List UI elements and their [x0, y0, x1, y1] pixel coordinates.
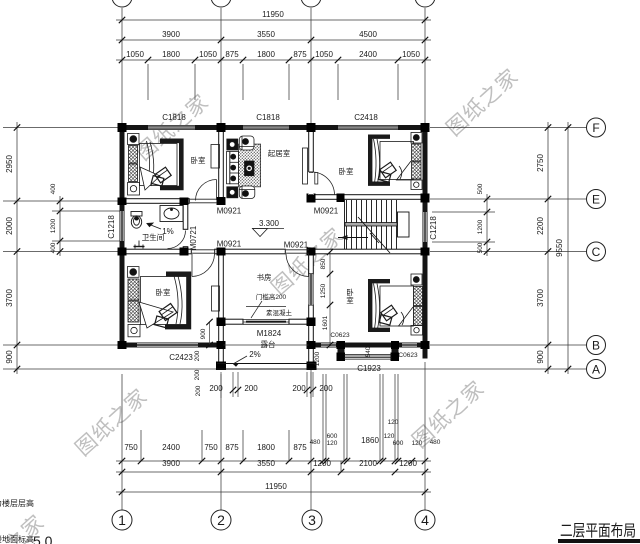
window C1818 b [243, 125, 289, 130]
bottom extension col1 [121, 374, 123, 510]
threshold leader line [251, 301, 262, 318]
svg-text:C0623: C0623 [330, 332, 350, 339]
bed2 mattress [380, 142, 414, 180]
svg-text:1800: 1800 [257, 50, 275, 59]
svg-text:2950: 2950 [5, 155, 14, 173]
svg-text:3550: 3550 [257, 459, 275, 468]
right C extension [430, 251, 586, 253]
right window jamb extensions [432, 211, 495, 213]
svg-text:120: 120 [384, 433, 395, 440]
svg-text:11950: 11950 [265, 482, 287, 491]
svg-text:200: 200 [292, 384, 306, 393]
wall bay left [338, 348, 345, 361]
svg-text:875: 875 [293, 443, 307, 452]
left main dim line [16, 122, 18, 374]
svg-text:3700: 3700 [536, 289, 545, 307]
door M0921 study threshold [286, 249, 309, 251]
bed3 fold [139, 302, 173, 328]
svg-text:卧室: 卧室 [339, 166, 354, 176]
bed3 pillows [128, 279, 139, 300]
tv bench [303, 148, 308, 184]
svg-text:500: 500 [477, 242, 484, 253]
svg-text:1%: 1% [162, 227, 174, 236]
svg-text:3900: 3900 [162, 459, 180, 468]
FURNITURE bedroom4 (bottom-right) [370, 274, 422, 335]
svg-text:875: 875 [225, 50, 239, 59]
svg-text:2000: 2000 [5, 217, 14, 235]
svg-text:600: 600 [327, 433, 338, 440]
window C0623 in X3 lower wall [309, 274, 314, 305]
svg-text:M0921: M0921 [217, 240, 242, 249]
small 200 dims below B [221, 372, 313, 398]
armchair top [239, 136, 254, 150]
svg-text:C1218: C1218 [107, 215, 116, 239]
top dim row window [116, 59, 431, 61]
left secondary dim line [59, 196, 61, 256]
svg-text:200: 200 [195, 385, 202, 396]
bed4 fold [399, 307, 414, 326]
armchair bottom [239, 186, 255, 199]
level mark 3.300 [252, 229, 284, 237]
bed3 foot bracket [165, 274, 189, 327]
svg-text:C1818: C1818 [162, 113, 186, 122]
WINDOWS [120, 125, 428, 359]
bed1 pillows [129, 146, 138, 164]
bottom dim ticks [119, 458, 428, 495]
svg-text:200: 200 [319, 384, 333, 393]
stair treads [346, 200, 348, 249]
svg-text:875: 875 [225, 443, 239, 452]
svg-text:3700: 3700 [5, 289, 14, 307]
bed1 mattress [140, 144, 178, 186]
right circle A [587, 360, 606, 379]
svg-text:600: 600 [393, 440, 404, 447]
left window jamb extensions [52, 210, 120, 212]
svg-text:400: 400 [50, 242, 57, 253]
svg-text:为楼层层高: 为楼层层高 [0, 498, 34, 508]
top dim row total [116, 19, 431, 21]
bottom extension col2 [220, 374, 222, 510]
bottom dim row axis [116, 471, 431, 473]
wall bay right [392, 348, 399, 361]
coffee table [245, 161, 255, 176]
slope 2% leader [233, 356, 247, 367]
svg-text:2100: 2100 [359, 459, 377, 468]
svg-text:1860: 1860 [361, 436, 379, 445]
svg-text:3550: 3550 [257, 30, 275, 39]
wall X3 lower [309, 249, 314, 274]
bed3 nightstand top [127, 267, 139, 278]
window C1218 right [423, 212, 428, 242]
top circle 3 [301, 0, 321, 7]
svg-text:900: 900 [200, 328, 207, 339]
bed4 clothes [381, 305, 397, 321]
door M0921 bedroom2 leaf [315, 173, 318, 185]
right total dim line [567, 122, 569, 374]
svg-text:3.300: 3.300 [259, 219, 280, 228]
window C1923 bay [344, 355, 392, 360]
svg-text:室: 室 [346, 295, 354, 305]
window C1218 left [120, 211, 125, 241]
svg-text:1050: 1050 [315, 50, 333, 59]
wall bottom B right part [309, 343, 428, 348]
door M0921 bedroom2 gap [309, 172, 314, 195]
right dim ticks [484, 124, 571, 372]
bottom circle 3 [302, 510, 322, 530]
bed2 nightstand bottom [411, 180, 422, 190]
bed1 fold [140, 167, 160, 190]
bed3 clothes [159, 303, 177, 320]
interior dim 900 study [209, 322, 211, 345]
bottom dim row small [116, 460, 431, 462]
sofa back [227, 152, 230, 184]
svg-text:3: 3 [308, 512, 316, 528]
bed1 clothes [155, 167, 171, 183]
wall E stairs top [309, 195, 428, 200]
svg-text:480: 480 [430, 439, 441, 446]
wall right stub below B [423, 348, 428, 359]
wall X2 upper (bedroom1/living) [219, 130, 224, 198]
A line full extension [3, 368, 586, 370]
svg-text:1250: 1250 [320, 283, 327, 298]
svg-text:B: B [592, 339, 600, 353]
bed3 nightstand bottom [128, 324, 140, 336]
grid extension line col4 top [424, 8, 426, 125]
svg-text:C2423: C2423 [169, 353, 193, 362]
bottom circle 4 [415, 510, 435, 530]
svg-text:1200: 1200 [50, 218, 57, 233]
svg-text:2750: 2750 [536, 154, 545, 172]
window C2423 [137, 343, 198, 348]
svg-text:卫生间: 卫生间 [142, 232, 165, 242]
svg-text:120: 120 [412, 440, 423, 447]
svg-text:M0921: M0921 [284, 241, 309, 250]
right circle C [587, 242, 606, 261]
svg-text:E: E [592, 193, 600, 207]
left C extension [3, 251, 120, 253]
floor drain [138, 241, 140, 247]
DOORS [168, 172, 335, 324]
svg-text:200: 200 [244, 384, 258, 393]
dim ticks top rows [119, 17, 428, 63]
FURNITURE bedroom2 (top-right) [370, 133, 422, 190]
svg-text:C2418: C2418 [354, 113, 378, 122]
WALLS [120, 125, 428, 361]
bedroom3 desk [212, 286, 220, 311]
FURNITURE bedroom3 (bottom-left) [127, 267, 219, 337]
bed4 mattress [380, 286, 414, 326]
washbasin [160, 206, 183, 222]
svg-text:875: 875 [293, 50, 307, 59]
door M1824 dark leaf bar [246, 321, 286, 323]
stair arrow [338, 237, 368, 239]
svg-text:C1818: C1818 [256, 113, 280, 122]
svg-text:1800: 1800 [162, 50, 180, 59]
bed1 quilt curves [146, 141, 150, 187]
stair landing bar [345, 223, 397, 227]
svg-text:3900: 3900 [162, 30, 180, 39]
right circle F [587, 118, 606, 137]
bed2 pillows [412, 144, 422, 161]
top circle 1 [112, 0, 132, 7]
door M0921 bedroom1 leaf+arc [216, 180, 218, 201]
window C0623 left [321, 343, 336, 348]
door M0921 bedroom2 arc [312, 172, 335, 195]
right circle B [587, 336, 606, 355]
svg-text:卧室: 卧室 [156, 287, 171, 297]
grid extension line col2 top [220, 8, 222, 125]
svg-text:1200: 1200 [477, 219, 484, 234]
end table bottom (dark) [227, 187, 238, 198]
svg-text:F: F [592, 121, 599, 135]
top circle 2 [211, 0, 231, 7]
concrete leader line [246, 306, 286, 308]
svg-text:1050: 1050 [402, 50, 420, 59]
wall top F [120, 125, 428, 130]
bed1 foot bracket [160, 141, 181, 188]
svg-text:750: 750 [204, 443, 218, 452]
wall E bedroom1 bottom [120, 199, 190, 204]
right circle E [587, 190, 606, 209]
svg-text:素混凝土: 素混凝土 [266, 308, 293, 317]
right B extension [430, 344, 586, 346]
svg-text:120: 120 [388, 419, 399, 426]
door M0921 bedroom3 leaf+arc [191, 254, 193, 277]
svg-text:2%: 2% [249, 350, 261, 359]
slope 1% leader [147, 224, 161, 230]
bedroom1 desk [211, 145, 220, 169]
svg-text:M0721: M0721 [189, 225, 198, 250]
left B extension [3, 344, 120, 346]
wall X3 upper (living/bedroom2) [309, 130, 314, 172]
svg-text:1: 1 [118, 512, 126, 528]
stair side line [344, 200, 346, 249]
svg-text:1200: 1200 [399, 459, 417, 468]
stair well rail [398, 212, 410, 237]
bed2 nightstand top [411, 133, 422, 144]
window C0623 right [402, 343, 417, 348]
door M0921 study leaf+arc [308, 254, 310, 277]
bed2 foot bracket [370, 137, 390, 184]
bathroom fixtures [131, 206, 183, 249]
window C2418 [338, 125, 398, 130]
wall study south [219, 319, 243, 324]
svg-text:2200: 2200 [536, 217, 545, 235]
svg-text:门槛高200: 门槛高200 [256, 292, 287, 301]
sofa seats [230, 152, 239, 184]
wall left [120, 125, 125, 348]
svg-text:二层平面布局: 二层平面布局 [560, 522, 636, 540]
bottom circle 1 [112, 510, 132, 530]
svg-text:200: 200 [194, 369, 201, 380]
svg-text:2400: 2400 [359, 50, 377, 59]
door M0721 bathroom arc [168, 231, 186, 249]
svg-text:850: 850 [320, 258, 327, 269]
bed2 fold [397, 161, 412, 180]
bed1 nightstand top [128, 134, 140, 145]
window C1818 a [148, 125, 195, 130]
svg-text:4: 4 [421, 512, 429, 528]
wall right [423, 125, 428, 348]
right F extension [430, 127, 586, 129]
bed2 clothes [380, 162, 396, 178]
svg-text:M0921: M0921 [314, 207, 339, 216]
left dim ticks [14, 124, 63, 372]
FURNITURE living room [227, 136, 308, 199]
svg-text:1200: 1200 [314, 351, 321, 366]
wall bathroom right [183, 199, 188, 230]
bottom extension col4 [424, 362, 426, 510]
interior dim line bedroom4 left [329, 252, 331, 345]
grid extension line col3 top [310, 8, 312, 125]
svg-text:5.0: 5.0 [33, 533, 53, 544]
stair break diagonal [358, 217, 390, 253]
svg-text:540: 540 [365, 346, 372, 357]
bed4 nightstand top [411, 274, 422, 285]
left F extension [3, 127, 120, 129]
svg-text:900: 900 [536, 350, 545, 364]
svg-text:400: 400 [50, 183, 57, 194]
svg-text:1601: 1601 [322, 315, 329, 330]
grid extension line col1 top [121, 8, 123, 125]
balcony B thin line [224, 344, 309, 346]
svg-text:为楼地面标高: 为楼地面标高 [0, 534, 34, 544]
bed3 mattress [141, 277, 189, 325]
door M0921 bedroom1 threshold [190, 198, 217, 200]
right secondary dim line [486, 194, 488, 256]
svg-text:2: 2 [217, 512, 225, 528]
bottom jamb extensions [140, 430, 142, 461]
svg-text:900: 900 [5, 350, 14, 364]
window jamb extension lines top [147, 64, 149, 100]
rug [239, 144, 261, 187]
bed3 quilt curves [174, 276, 178, 324]
svg-text:C: C [592, 245, 601, 259]
end table top (dark) [227, 139, 238, 150]
bottom extension col3 [310, 365, 312, 510]
svg-text:1200: 1200 [313, 459, 331, 468]
svg-text:1050: 1050 [199, 50, 217, 59]
svg-text:卧室: 卧室 [191, 155, 206, 165]
bed4 foot bracket [370, 281, 390, 330]
door M0921 bedroom3 threshold [192, 249, 215, 251]
top dim row axis [116, 39, 431, 41]
svg-text:1050: 1050 [126, 50, 144, 59]
svg-text:M0921: M0921 [217, 207, 242, 216]
svg-text:200: 200 [194, 350, 201, 361]
svg-text:露台: 露台 [261, 339, 276, 349]
svg-text:A: A [592, 363, 600, 377]
svg-text:C1218: C1218 [429, 216, 438, 240]
svg-text:200: 200 [209, 384, 223, 393]
svg-text:11950: 11950 [262, 10, 284, 19]
column blocks [118, 123, 430, 370]
interior walls (double line) [120, 130, 428, 369]
svg-text:1800: 1800 [257, 443, 275, 452]
left E extension [3, 200, 120, 202]
wall X2 lower (bedroom3/study) [219, 249, 224, 369]
bed1 nightstand bottom [128, 183, 140, 196]
svg-text:9550: 9550 [555, 239, 564, 257]
bed4 nightstand bottom [411, 326, 423, 336]
title underline [558, 539, 640, 543]
bed4 quilt curves [374, 284, 377, 330]
svg-text:起居室: 起居室 [268, 148, 291, 158]
top circle 4 [415, 0, 435, 7]
bottom dim row total [116, 491, 431, 493]
svg-text:M1824: M1824 [257, 329, 282, 338]
STAIRS [338, 200, 409, 253]
svg-text:480: 480 [310, 439, 321, 446]
bottom circle 2 [211, 510, 231, 530]
FURNITURE bedroom1 (top-left) [128, 134, 220, 196]
svg-text:C0623: C0623 [398, 352, 418, 359]
wall C corridor [120, 249, 192, 254]
svg-text:2400: 2400 [162, 443, 180, 452]
wall bottom B left part [120, 343, 224, 348]
right E extension [430, 198, 586, 200]
svg-text:4500: 4500 [359, 30, 377, 39]
door M1824 threshold [243, 319, 289, 321]
bed2 quilt curves [374, 139, 377, 183]
bed4 pillows [414, 287, 423, 306]
svg-text:750: 750 [124, 443, 138, 452]
balcony south rail [217, 364, 316, 370]
right main dim line [547, 122, 549, 374]
svg-text:C1923: C1923 [357, 364, 381, 373]
toilet [131, 212, 142, 217]
svg-text:书房: 书房 [257, 272, 272, 282]
svg-text:120: 120 [327, 440, 338, 447]
svg-text:500: 500 [477, 183, 484, 194]
